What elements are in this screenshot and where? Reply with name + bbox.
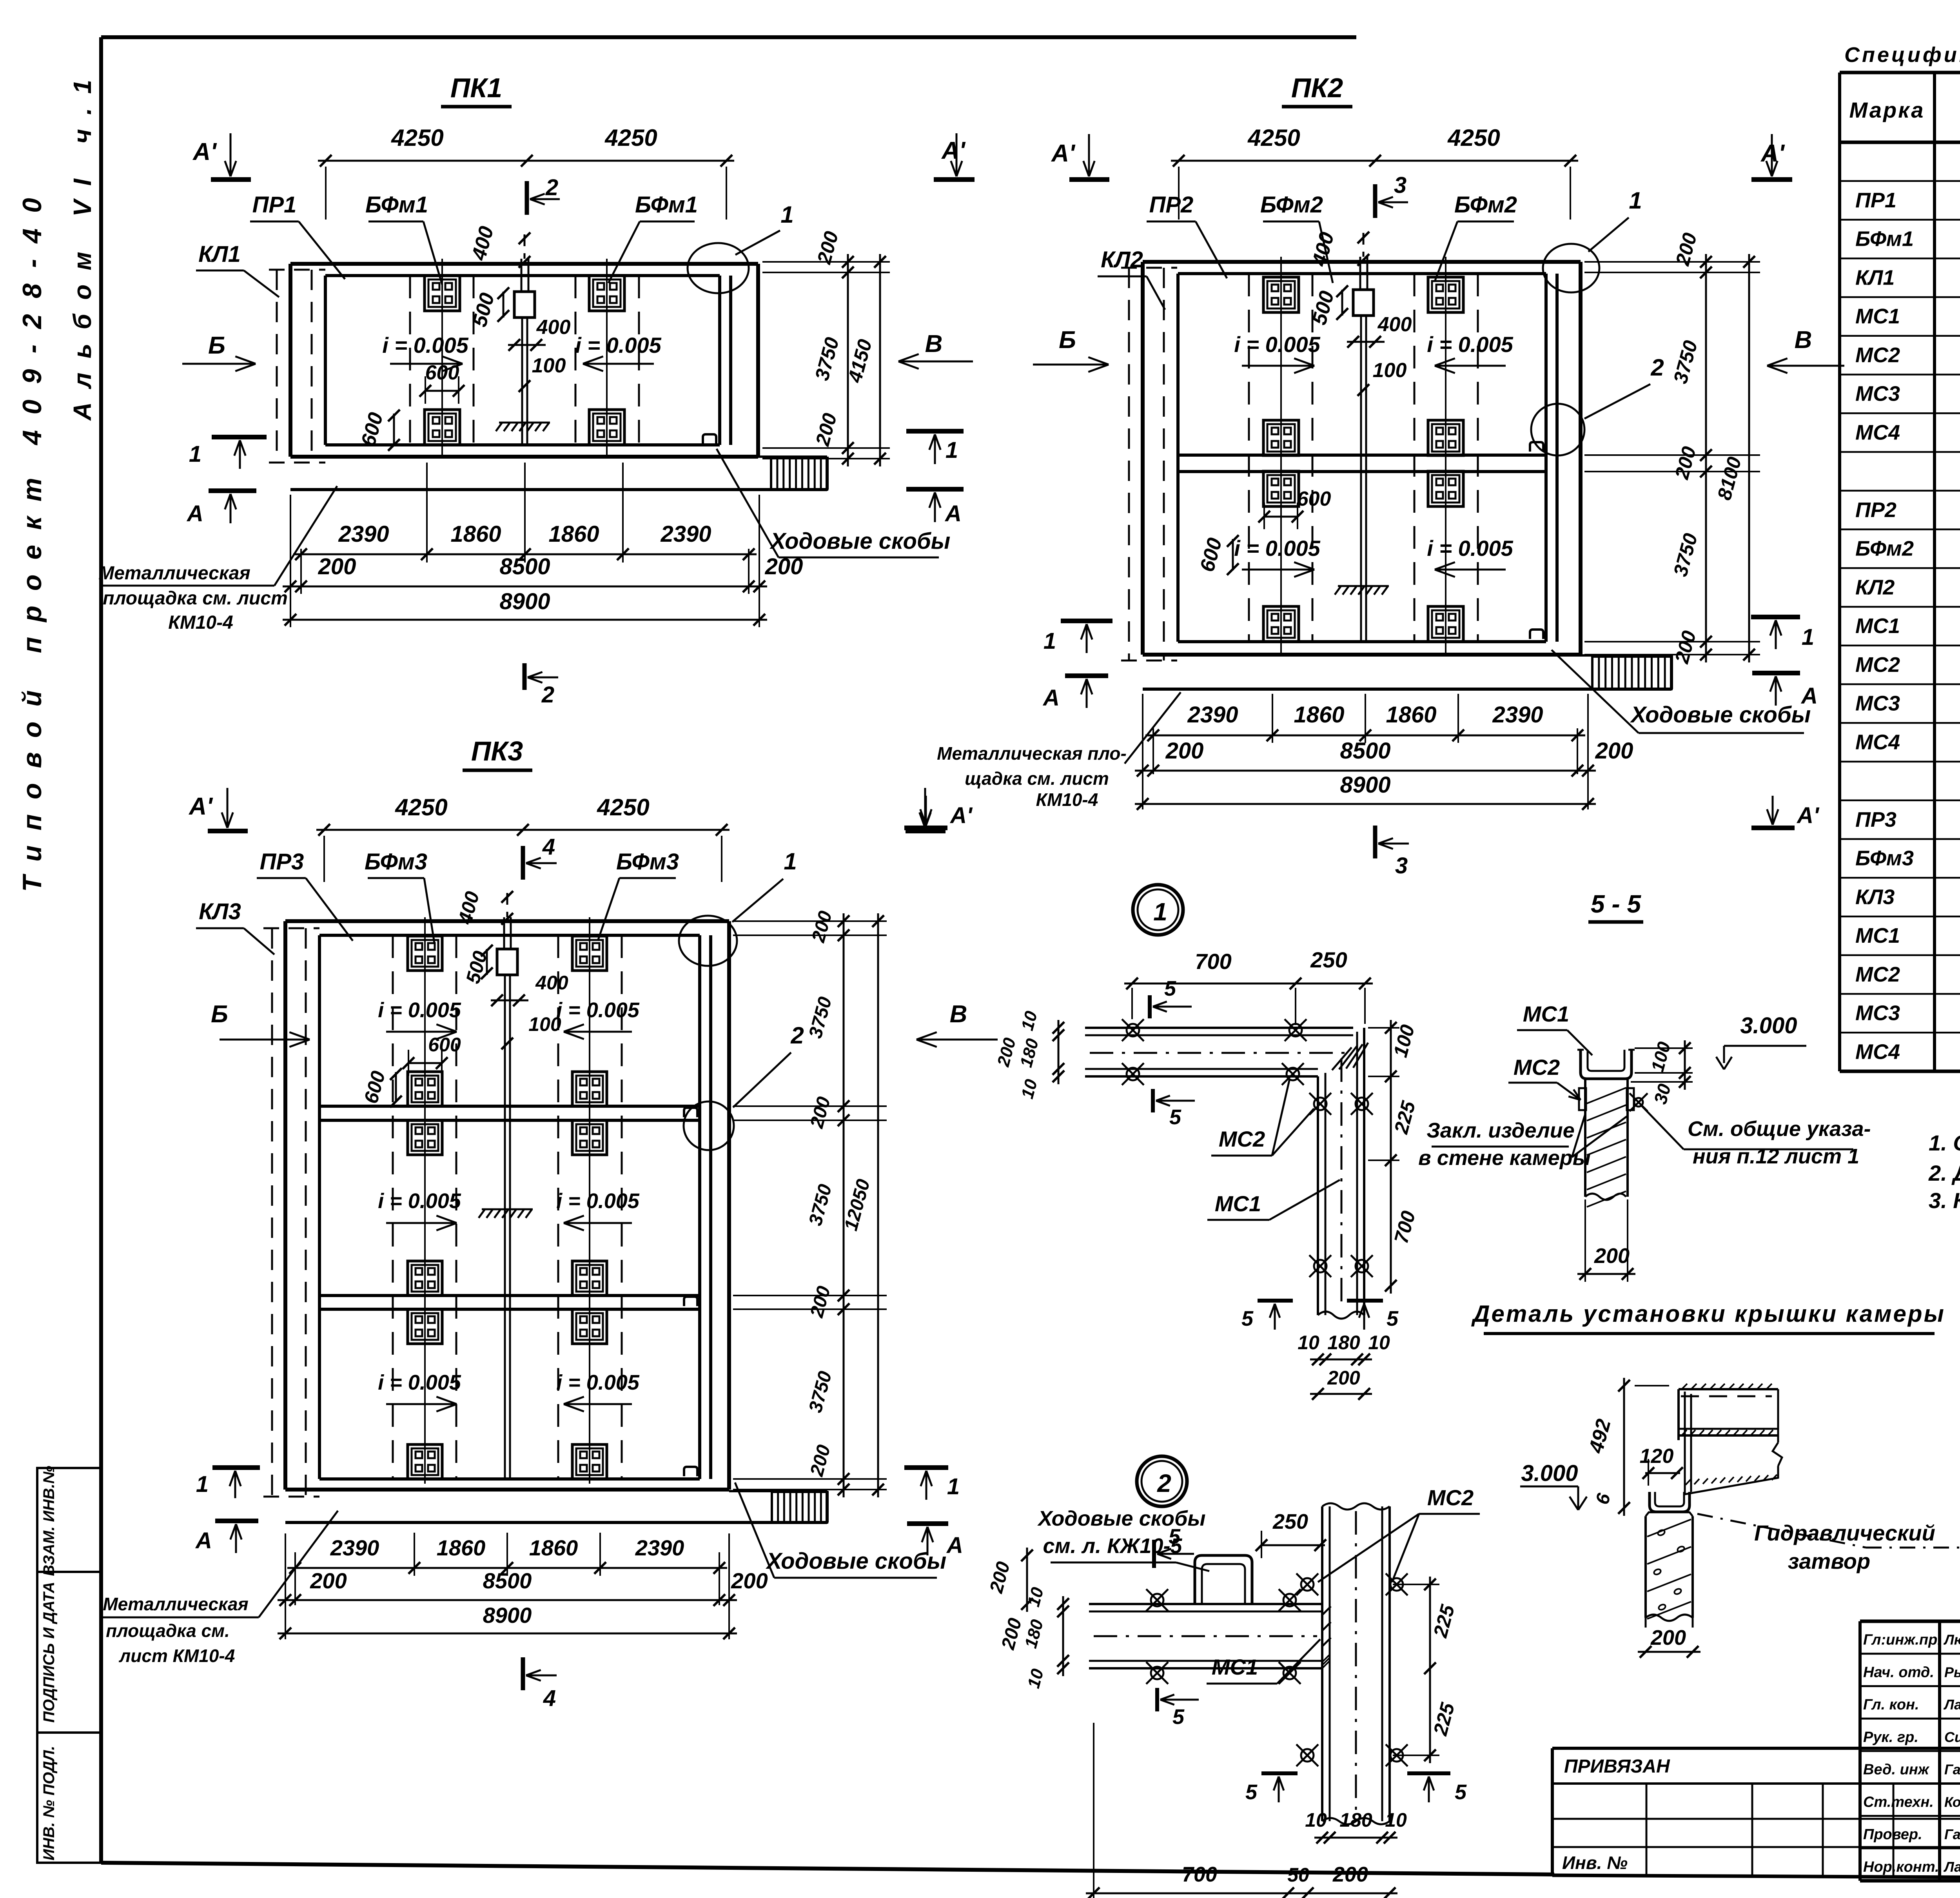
svg-text:4250: 4250 — [1247, 125, 1300, 151]
svg-text:МС4: МС4 — [1855, 730, 1900, 754]
svg-text:МС4: МС4 — [1855, 421, 1900, 444]
chamber PK3 inner wall — [319, 935, 711, 1479]
seal detail U channel zatvor — [1650, 1492, 1690, 1512]
detail 2 MC2 label — [1318, 1485, 1480, 1582]
note metal platform PK3 — [101, 1511, 338, 1666]
svg-text:1860: 1860 — [548, 521, 599, 547]
slope labels PK1 — [382, 333, 661, 371]
svg-text:4250: 4250 — [391, 125, 443, 151]
section 5-5 MC2 label — [1508, 1055, 1581, 1100]
svg-text:200: 200 — [318, 554, 356, 579]
chamber inner wall — [325, 276, 731, 445]
svg-text:3.000: 3.000 — [1740, 1013, 1797, 1038]
svg-text:3.000: 3.000 — [1521, 1461, 1578, 1486]
svg-text:МС2: МС2 — [1427, 1485, 1474, 1510]
bottom-left stamp strip — [37, 1468, 101, 1863]
svg-text:3: 3 — [1395, 853, 1408, 878]
svg-text:i = 0.005: i = 0.005 — [1234, 332, 1320, 357]
channel KL3 dashed outline — [263, 928, 319, 1497]
svg-text:2390: 2390 — [338, 521, 389, 547]
svg-text:КМ10-4: КМ10-4 — [1036, 789, 1098, 810]
svg-text:2: 2 — [1157, 1469, 1171, 1497]
ladder hatch PK1 — [771, 458, 827, 490]
svg-text:50: 50 — [1287, 1864, 1309, 1886]
svg-text:i = 0.005: i = 0.005 — [556, 1189, 640, 1213]
svg-text:Гл. кон.: Гл. кон. — [1863, 1697, 1919, 1713]
svg-text:Металлическая: Металлическая — [98, 563, 250, 584]
svg-text:А: А — [946, 1533, 963, 1558]
svg-text:2: 2 — [541, 682, 554, 708]
privyazан block — [1552, 1748, 1960, 1878]
svg-text:5: 5 — [1387, 1307, 1399, 1330]
intermediate walls PK3 — [319, 1106, 700, 1309]
svg-text:А: А — [195, 1528, 212, 1553]
svg-text:2390: 2390 — [1492, 702, 1543, 728]
svg-text:ПР2: ПР2 — [1149, 192, 1194, 218]
svg-text:А: А — [186, 501, 203, 526]
svg-text:КЛ3: КЛ3 — [1855, 885, 1895, 909]
ground hatch PK1 — [496, 423, 550, 431]
anchor plates PK1 — [425, 276, 624, 445]
svg-text:700: 700 — [1195, 949, 1231, 974]
svg-text:250: 250 — [1310, 947, 1347, 972]
svg-text:КЛ2: КЛ2 — [1101, 247, 1143, 272]
svg-text:БФм1: БФм1 — [1855, 227, 1914, 251]
section marker 2 bottom PK1 — [524, 663, 558, 708]
svg-text:См. общие указа-: См. общие указа- — [1688, 1117, 1871, 1141]
svg-text:ния п.12 лист 1: ния п.12 лист 1 — [1693, 1145, 1859, 1168]
section 5-5 elevation 3.000 — [1716, 1013, 1806, 1069]
plate centerlines PK1 — [442, 259, 607, 459]
note metal platform PK1 — [98, 486, 337, 633]
svg-text:Марка: Марка — [1849, 98, 1925, 122]
dims near drain PK2 — [1308, 230, 1412, 396]
svg-text:Ходовые скобы: Ходовые скобы — [769, 528, 951, 554]
svg-text:площадка см.: площадка см. — [106, 1620, 230, 1641]
svg-text:8500: 8500 — [483, 1568, 532, 1593]
svg-text:1860: 1860 — [450, 521, 501, 547]
svg-text:ПР1: ПР1 — [252, 192, 297, 218]
svg-text:i = 0.005: i = 0.005 — [1427, 536, 1513, 561]
svg-text:ВЗАМ. ИНВ.№: ВЗАМ. ИНВ.№ — [40, 1466, 58, 1576]
svg-text:МС1: МС1 — [1523, 1002, 1569, 1026]
seal detail gidravlicheskiy zatvor label — [1697, 1514, 1960, 1573]
label BFm1 right — [608, 192, 698, 283]
detail 1 circle label — [1133, 885, 1183, 935]
svg-text:5: 5 — [1164, 977, 1176, 1000]
label KL1 — [196, 241, 279, 297]
svg-text:5 - 5: 5 - 5 — [1591, 890, 1641, 918]
axis dashed lines PK1 — [410, 276, 639, 445]
svg-text:i = 0.005: i = 0.005 — [378, 998, 461, 1022]
svg-text:КЛ1: КЛ1 — [1855, 266, 1895, 289]
detail 1 bottom dims 10 180 10 200 — [1298, 1332, 1390, 1400]
table header texts — [1849, 87, 1960, 134]
detail circle 1 on PK3 — [679, 848, 797, 966]
svg-text:Гальперина: Гальперина — [1944, 1826, 1960, 1842]
section 5-5 title — [1588, 890, 1643, 922]
signature table grid — [1860, 1621, 1960, 1881]
svg-text:БФм2: БФм2 — [1855, 537, 1914, 561]
section marker 3 bottom PK2 — [1375, 826, 1409, 878]
label PR3 — [257, 849, 353, 941]
svg-text:8500: 8500 — [1340, 738, 1390, 764]
svg-text:А': А' — [1796, 803, 1820, 828]
svg-text:1: 1 — [947, 1474, 960, 1499]
svg-text:БФм2: БФм2 — [1260, 192, 1323, 218]
svg-text:В: В — [950, 1001, 967, 1028]
svg-text:А': А' — [192, 138, 217, 165]
signature table texts — [1863, 1632, 1960, 1875]
marker A bottom-right PK2 — [1752, 673, 1818, 709]
detail 2 bottom dims — [1086, 1723, 1407, 1898]
label PR2 — [1147, 192, 1227, 278]
anchor plates PK3 — [408, 936, 607, 1479]
svg-text:1860: 1860 — [529, 1535, 578, 1560]
svg-text:400: 400 — [535, 972, 568, 994]
detail 2 vertical wall — [1322, 1503, 1390, 1824]
svg-text:Рыбкина: Рыбкина — [1944, 1664, 1960, 1680]
svg-text:10: 10 — [1298, 1332, 1319, 1354]
svg-text:КЛ1: КЛ1 — [198, 241, 241, 267]
marker 1 bottom-left PK1 — [189, 437, 267, 469]
svg-text:МС1: МС1 — [1215, 1191, 1261, 1216]
section 5-5 zakl izdelie label — [1418, 1114, 1627, 1170]
svg-text:200: 200 — [1165, 738, 1204, 764]
svg-text:площадка см. лист: площадка см. лист — [103, 588, 288, 609]
marker A1 top-right PK2 — [1751, 134, 1792, 180]
svg-text:в стене камеры: в стене камеры — [1418, 1146, 1591, 1170]
right dimension chain PK2 — [1584, 230, 1760, 666]
svg-text:1: 1 — [1629, 187, 1642, 214]
svg-text:i = 0.005: i = 0.005 — [1427, 332, 1513, 357]
svg-text:2: 2 — [1650, 354, 1664, 381]
svg-text:1: 1 — [780, 201, 793, 228]
svg-text:1. Общие указания см. лист КЖ1: 1. Общие указания см. лист КЖ10-1. — [1929, 1130, 1960, 1155]
label BFm3 left — [365, 849, 434, 943]
label BFm1 left — [365, 192, 442, 285]
svg-text:Закл. изделие: Закл. изделие — [1426, 1119, 1575, 1142]
svg-text:Ходовые скобы: Ходовые скобы — [1630, 702, 1811, 728]
dim 400 right of drain PK1 — [508, 316, 570, 351]
detail 2 circle label — [1137, 1456, 1187, 1506]
svg-text:МС3: МС3 — [1855, 382, 1900, 406]
svg-text:5: 5 — [1169, 1105, 1181, 1129]
svg-text:МС3: МС3 — [1855, 692, 1900, 715]
chamber PK3 outer wall — [285, 921, 729, 1490]
svg-text:1860: 1860 — [1386, 702, 1436, 728]
svg-text:Металлическая: Металлическая — [103, 1594, 248, 1614]
plate centerlines PK3 — [425, 917, 590, 1484]
svg-text:ПК1: ПК1 — [450, 73, 502, 103]
section 5-5 side plates MC2 — [1579, 1088, 1648, 1111]
svg-text:400: 400 — [1377, 313, 1412, 336]
svg-text:2390: 2390 — [660, 521, 711, 547]
svg-text:10: 10 — [1385, 1809, 1407, 1831]
detail 2 skoba label — [1037, 1507, 1209, 1571]
seal detail bottom dim 200 — [1638, 1626, 1700, 1658]
label hodovye skoby PK3 — [735, 1482, 946, 1578]
svg-text:А: А — [944, 501, 962, 526]
svg-text:1: 1 — [784, 848, 797, 875]
svg-text:Гл:инж.пр.: Гл:инж.пр. — [1863, 1632, 1942, 1648]
svg-text:ПР1: ПР1 — [1855, 189, 1896, 212]
anchor plates PK2 — [1263, 277, 1463, 642]
drain center PK3 — [497, 893, 517, 1479]
svg-text:180: 180 — [1339, 1809, 1372, 1831]
svg-text:700: 700 — [1182, 1863, 1217, 1886]
detail circle 1 on PK1 — [688, 201, 794, 293]
svg-text:А': А' — [188, 793, 213, 820]
slope labels PK2 — [1234, 332, 1513, 577]
skoba icons PK3 — [684, 1108, 697, 1476]
right dimension chain PK1 — [762, 229, 890, 466]
svg-text:8900: 8900 — [1340, 772, 1390, 798]
svg-text:2390: 2390 — [330, 1535, 379, 1560]
marker V right PK3 — [916, 1001, 998, 1047]
table row contents — [1855, 146, 1960, 1063]
svg-text:600: 600 — [428, 1034, 461, 1056]
svg-text:БФм1: БФм1 — [635, 192, 698, 218]
channel KL dashed outline — [269, 270, 325, 463]
svg-text:Б: Б — [208, 332, 225, 359]
svg-text:4: 4 — [542, 834, 555, 860]
detail 1 break waves — [1318, 1312, 1364, 1319]
svg-text:200: 200 — [1332, 1863, 1368, 1886]
dims near drain PK3 — [454, 889, 568, 1049]
svg-text:МС3: МС3 — [1855, 1002, 1900, 1025]
svg-text:i = 0.005: i = 0.005 — [378, 1189, 461, 1213]
drain center PK1 — [514, 234, 535, 445]
svg-text:409-28-40: 409-28-40 — [17, 182, 47, 446]
ground hatch PK3 — [479, 1209, 533, 1218]
marker A1 top-right PK3 — [906, 788, 946, 831]
notes list — [1928, 1130, 1960, 1241]
svg-text:Типовой проект: Типовой проект — [17, 463, 47, 892]
svg-text:щадка см. лист: щадка см. лист — [965, 768, 1109, 789]
dim 600 plate PK1 — [419, 361, 465, 404]
marker A1 top-left PK1 — [192, 133, 251, 180]
detail 2 dims 225 225 — [1393, 1577, 1459, 1763]
svg-text:i = 0.005: i = 0.005 — [378, 1371, 461, 1394]
svg-text:1: 1 — [1802, 624, 1814, 650]
ladder hatch PK2 — [1592, 657, 1671, 689]
svg-text:100: 100 — [1373, 359, 1407, 382]
svg-text:8900: 8900 — [483, 1603, 532, 1628]
svg-text:2390: 2390 — [635, 1535, 684, 1560]
marker A bottom-left PK3 — [195, 1521, 258, 1553]
chamber outer wall — [290, 264, 758, 457]
svg-text:4250: 4250 — [1447, 125, 1500, 151]
detail 1 MC1 label — [1207, 1180, 1340, 1220]
svg-text:Спецификация к схемам располож: Спецификация к схемам расположения элеме… — [1844, 43, 1960, 67]
marker A bottom-left PK2 — [1042, 676, 1108, 711]
ladder hatch PK3 — [772, 1492, 827, 1522]
channel KL2 dashed outline — [1121, 268, 1177, 660]
marker 1 right PK1 — [906, 431, 964, 464]
drain center PK2 — [1353, 233, 1374, 642]
svg-text:Вед. инж: Вед. инж — [1863, 1762, 1930, 1778]
svg-text:Нач. отд.: Нач. отд. — [1863, 1664, 1934, 1680]
label hodovye skoby PK2 — [1552, 650, 1811, 733]
svg-text:2. Данный лист см. совместно с: 2. Данный лист см. совместно с листами К… — [1928, 1161, 1960, 1185]
label BFm2 left — [1260, 192, 1333, 283]
marker 1 bottom-right PK2 — [1751, 617, 1814, 650]
seal detail dims 492 120 6 — [1584, 1378, 1683, 1516]
svg-text:i = 0.005: i = 0.005 — [382, 333, 468, 357]
svg-text:200: 200 — [1650, 1626, 1686, 1649]
section marker 3 top PK2 — [1375, 172, 1408, 218]
svg-text:200: 200 — [731, 1568, 768, 1593]
svg-text:Б: Б — [211, 1001, 228, 1028]
label hodovye skoby PK1 — [717, 449, 950, 557]
dim 500 drain PK1 — [468, 287, 509, 329]
label KL3 — [196, 899, 274, 954]
svg-text:Ст.техн.: Ст.техн. — [1863, 1794, 1934, 1810]
marker A1 bottom-left PK2 — [904, 796, 973, 828]
svg-text:8500: 8500 — [499, 554, 550, 579]
svg-text:БФм3: БФм3 — [1855, 847, 1914, 870]
seal detail cover slab — [1679, 1384, 1782, 1494]
right dimension chain PK3 — [733, 909, 887, 1497]
skoba bottom right PK1 — [703, 434, 716, 444]
marker A right PK1 — [906, 489, 964, 526]
svg-text:лист КМ10-4: лист КМ10-4 — [119, 1646, 235, 1666]
svg-text:100: 100 — [532, 354, 566, 377]
svg-text:МС1: МС1 — [1855, 305, 1900, 328]
detail 1 top dims 700 250 — [1124, 947, 1373, 1025]
svg-text:ПР2: ПР2 — [1855, 498, 1896, 522]
bottom dimension rows PK3 — [278, 1533, 768, 1639]
svg-text:МС1: МС1 — [1212, 1655, 1258, 1679]
detail circle 2 on PK2 — [1531, 354, 1664, 455]
svg-text:БФм3: БФм3 — [365, 849, 427, 875]
label KL2 — [1098, 247, 1165, 310]
svg-text:А': А' — [941, 137, 966, 164]
svg-text:КЛ2: КЛ2 — [1855, 575, 1895, 599]
detail 1 right dims 100 225 — [1368, 1020, 1420, 1294]
detail 2 dim 250 — [1256, 1510, 1326, 1558]
platform below PK2 — [1143, 655, 1671, 689]
svg-text:i = 0.005: i = 0.005 — [556, 998, 640, 1022]
svg-text:В: В — [1795, 327, 1812, 354]
dim 600 PK3 — [360, 1034, 461, 1107]
svg-text:МС1: МС1 — [1855, 614, 1900, 638]
svg-text:Гальперина: Гальперина — [1944, 1762, 1960, 1778]
intermediate wall PK2 — [1178, 455, 1546, 472]
svg-text:Лапкин: Лапкин — [1943, 1859, 1960, 1875]
svg-text:5: 5 — [1455, 1780, 1467, 1804]
svg-text:Гидравлический: Гидравлический — [1754, 1521, 1935, 1545]
label BFm2 right — [1435, 192, 1517, 281]
bottom dimension rows PK1 — [283, 463, 803, 627]
marker A1 top-left PK2 — [1051, 134, 1109, 180]
svg-text:Любавин: Любавин — [1943, 1632, 1960, 1648]
svg-text:МС2: МС2 — [1855, 963, 1900, 986]
svg-text:8900: 8900 — [499, 589, 550, 614]
svg-text:Синельникова: Синельникова — [1944, 1729, 1960, 1745]
section 5-5 channel MC1 — [1577, 1050, 1635, 1079]
svg-text:200: 200 — [1327, 1367, 1360, 1389]
svg-text:200: 200 — [310, 1568, 347, 1593]
svg-text:А': А' — [949, 803, 973, 828]
marker B left PK3 — [211, 1001, 310, 1047]
dim 400 above drain PK1 — [467, 224, 530, 268]
svg-text:МС4: МС4 — [1855, 1040, 1900, 1063]
svg-text:Б: Б — [1059, 327, 1076, 354]
seal detail concrete pier — [1646, 1512, 1693, 1628]
detail 2 horizontal wall — [1089, 1604, 1322, 1668]
svg-text:ИНВ. № ПОДЛ.: ИНВ. № ПОДЛ. — [40, 1746, 58, 1861]
svg-text:5: 5 — [1245, 1780, 1258, 1804]
detail 1 corner miter hatch — [1332, 1043, 1368, 1070]
marker 1 bottom-right PK3 — [904, 1468, 960, 1500]
marker 1 bottom-left PK3 — [196, 1468, 260, 1498]
svg-text:3: 3 — [1394, 172, 1406, 198]
svg-text:Альбом VI ч.1: Альбом VI ч.1 — [68, 66, 96, 421]
svg-text:200: 200 — [1594, 1244, 1630, 1268]
svg-text:250: 250 — [1272, 1510, 1308, 1533]
dim 100 PK1 — [519, 354, 566, 392]
svg-text:МС1: МС1 — [1855, 924, 1900, 947]
svg-text:А: А — [1042, 685, 1060, 711]
svg-text:Рук. гр.: Рук. гр. — [1863, 1729, 1918, 1746]
marker A bottom-left PK1 — [186, 491, 256, 526]
svg-text:БФм2: БФм2 — [1454, 192, 1517, 218]
sheet border frame — [101, 35, 1356, 39]
marker V right PK2 — [1767, 327, 1844, 373]
svg-text:180: 180 — [1327, 1332, 1360, 1354]
svg-text:МС2: МС2 — [1855, 343, 1900, 367]
svg-text:затвор: затвор — [1788, 1549, 1870, 1573]
svg-text:i = 0.005: i = 0.005 — [575, 333, 661, 357]
detail 2 junction hatch — [1322, 1606, 1331, 1668]
svg-text:3. Крышка камеры условно не п: 3. Крышка камеры условно не показана, см… — [1929, 1188, 1960, 1213]
seal detail elevation 3.000 — [1520, 1461, 1587, 1510]
svg-text:Лапкин: Лапкин — [1943, 1697, 1960, 1713]
top dimension 4250+4250 PK2 — [1171, 125, 1578, 220]
marker A1 top-right PK1 — [934, 133, 975, 180]
detail 2 skoba symbol — [1195, 1555, 1252, 1604]
section 5-5 wall concrete — [1585, 1079, 1628, 1207]
svg-text:1: 1 — [196, 1472, 209, 1497]
section 5-5 bottom dim 200 — [1577, 1199, 1635, 1282]
platform below PK1 — [290, 457, 827, 490]
section 5-5 MC1 label — [1517, 1002, 1592, 1055]
marker V right PK1 — [898, 330, 973, 369]
detail 1 section 5 markers — [1150, 977, 1399, 1330]
marker B left PK2 — [1033, 327, 1109, 372]
svg-text:БФм3: БФм3 — [616, 849, 679, 875]
svg-text:2: 2 — [545, 175, 558, 200]
svg-text:В: В — [925, 330, 943, 357]
svg-text:200: 200 — [1595, 738, 1633, 764]
marker A1 top-left PK3 — [188, 788, 248, 831]
svg-text:А': А' — [1051, 140, 1076, 167]
bottom dimension rows PK2 — [1135, 694, 1633, 810]
axis dashed lines PK3 — [393, 935, 622, 1479]
slope labels PK3 — [378, 998, 640, 1412]
svg-text:120: 120 — [1640, 1445, 1674, 1468]
label BFm3 right — [598, 849, 679, 941]
svg-text:ПР3: ПР3 — [260, 849, 304, 875]
svg-text:i = 0.005: i = 0.005 — [1234, 536, 1320, 561]
marker A1 bottom-right PK2 — [1751, 796, 1820, 828]
svg-text:МС2: МС2 — [1219, 1127, 1265, 1151]
detail 2 section 5 markers — [1154, 1525, 1467, 1804]
svg-text:600: 600 — [425, 361, 459, 384]
detail 2 MC1 label — [1207, 1639, 1320, 1684]
